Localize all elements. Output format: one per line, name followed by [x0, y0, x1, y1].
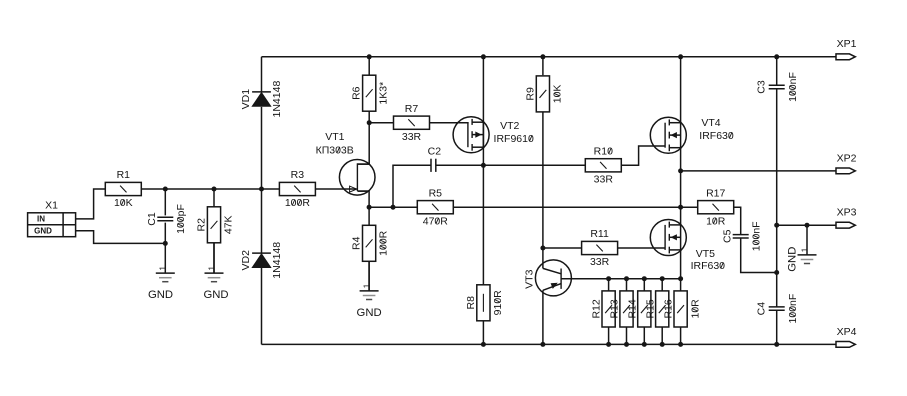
junction C2 riser node	[391, 205, 396, 210]
junction VT1 source node	[367, 205, 372, 210]
svg-text:VT2: VT2	[500, 120, 519, 132]
resistor R14 10R bank	[626, 279, 651, 345]
resistor R16 10R bank	[663, 291, 688, 327]
svg-text:C1: C1	[146, 212, 158, 226]
capacitor C3	[756, 72, 800, 102]
transistor VT2 IRF9610	[453, 117, 534, 153]
wire left vertical VD1 to node IN	[261, 107, 263, 253]
svg-text:IN: IN	[37, 215, 45, 224]
svg-text:VT4: VT4	[701, 117, 720, 129]
resistor R10	[585, 146, 621, 186]
junction sense rail R13	[624, 276, 629, 281]
junction bottom rail R13	[624, 342, 629, 347]
svg-text:33R: 33R	[590, 256, 610, 268]
junction VT4 source XP2	[678, 168, 683, 173]
capacitor C4	[756, 294, 800, 324]
junction input rail VD	[259, 187, 264, 192]
svg-text:GND: GND	[148, 289, 173, 301]
svg-text:VT1: VT1	[325, 131, 344, 143]
junction C2 VT2 source	[481, 163, 486, 168]
wire VT5 source to sense node	[680, 250, 682, 279]
label R16 value 10R	[690, 299, 702, 319]
svg-text:R17: R17	[706, 187, 725, 199]
wire VT5 drain	[680, 207, 682, 225]
svg-text:X1: X1	[45, 199, 58, 211]
connector X1	[28, 199, 76, 236]
wire R6 bottom to gate node	[368, 111, 370, 123]
junction C5 ground line	[774, 270, 779, 275]
wire C1 bottom branch	[164, 223, 166, 244]
svg-text:10K: 10K	[114, 197, 133, 209]
svg-text:C2: C2	[428, 145, 442, 157]
wire R1 to R3 input rail	[141, 188, 279, 190]
capacitor C5	[721, 221, 762, 251]
wire R4 bottom to ground	[368, 261, 370, 291]
svg-text:100R: 100R	[378, 230, 390, 256]
svg-text:КП303В: КП303В	[316, 144, 354, 156]
wire R17 to C5	[734, 207, 741, 234]
wire ground line C3 to XP3	[776, 89, 778, 226]
wire ground line top	[776, 57, 778, 86]
svg-text:1: 1	[207, 266, 216, 271]
junction top rail R9	[540, 54, 545, 59]
svg-text:100nF: 100nF	[787, 294, 799, 324]
wire R11 to VT5 gate	[618, 247, 666, 249]
wire VT2 node to R10	[483, 164, 585, 166]
svg-text:C4: C4	[756, 302, 768, 316]
svg-text:R3: R3	[291, 169, 305, 181]
wire VT2 channel to C2 node	[482, 122, 484, 165]
resistor R15 10R bank	[644, 279, 669, 345]
svg-text:470R: 470R	[423, 215, 449, 227]
svg-text:R15: R15	[644, 299, 656, 318]
svg-text:100nF: 100nF	[787, 72, 799, 102]
wire R2 top branch	[213, 189, 215, 207]
resistor R4	[351, 225, 390, 261]
wire C2 right to VT2 source node	[436, 164, 484, 166]
svg-text:R1: R1	[117, 169, 131, 181]
wire R3 to VT1 gate	[315, 188, 356, 190]
wire R7 left	[369, 122, 393, 124]
svg-text:R6: R6	[351, 86, 363, 100]
junction input rail C1	[163, 187, 168, 192]
resistor R8	[465, 285, 504, 321]
svg-text:910R: 910R	[492, 290, 504, 316]
junction sense rail R14	[642, 276, 647, 281]
wire ground line XP3 to C5 node	[776, 225, 778, 272]
svg-text:10K: 10K	[551, 85, 563, 104]
svg-text:R16: R16	[663, 299, 675, 318]
transistor VT1 KP303V JFET	[316, 131, 375, 195]
wire top supply rail	[262, 56, 837, 58]
wire XP2 node to VT5 drain node	[680, 171, 682, 207]
terminal XP1	[836, 38, 857, 60]
svg-text:1N4148: 1N4148	[271, 81, 283, 118]
wire C2 riser	[393, 165, 431, 207]
svg-text:GND: GND	[357, 307, 382, 319]
transistor VT5 IRF630	[650, 220, 725, 273]
svg-text:1K3*: 1K3*	[378, 82, 390, 105]
wire VT3 base to sense rail	[561, 278, 681, 280]
wire gate node to VT1 drain	[358, 123, 369, 164]
wire VT3 collector	[542, 248, 544, 268]
resistor R6	[351, 75, 390, 111]
wire R17 left	[681, 206, 698, 208]
junction R17 VT5 drain	[678, 205, 683, 210]
svg-text:R7: R7	[405, 103, 419, 115]
wire R9 bottom to R11 node	[542, 112, 544, 248]
junction bottom rail R14	[642, 342, 647, 347]
wire XP2 output rail	[681, 170, 836, 172]
junction top rail R6	[367, 54, 372, 59]
junction bottom rail ground line	[774, 342, 779, 347]
resistor R17	[698, 187, 734, 227]
junction input rail R2	[212, 187, 217, 192]
svg-text:IRF630: IRF630	[691, 260, 726, 272]
junction sense rail R16	[678, 276, 683, 281]
wire R11 left	[543, 247, 582, 249]
wire R4 top	[368, 207, 370, 225]
terminal XP3	[836, 207, 857, 228]
capacitor C1	[146, 204, 187, 234]
svg-text:R13: R13	[609, 299, 621, 318]
resistor R3	[279, 169, 315, 209]
svg-text:IRF9610: IRF9610	[494, 133, 534, 145]
junction XP3 gnd symbol	[805, 223, 810, 228]
wire C1 top branch	[164, 189, 166, 215]
svg-text:C3: C3	[756, 80, 768, 94]
svg-text:33R: 33R	[402, 131, 422, 143]
svg-text:R4: R4	[351, 236, 363, 250]
svg-text:1: 1	[159, 266, 168, 271]
svg-text:R9: R9	[524, 87, 536, 101]
transistor VT3	[523, 260, 571, 296]
svg-text:R12: R12	[591, 299, 603, 318]
resistor R11	[582, 228, 618, 268]
svg-text:1N4148: 1N4148	[271, 242, 283, 279]
capacitor C2	[428, 145, 442, 172]
ground below C1	[148, 243, 175, 301]
ground near XP3	[786, 225, 816, 272]
terminal XP2	[836, 152, 857, 173]
wire left vertical VD2 to bottom rail	[261, 268, 263, 345]
diode VD1	[240, 81, 283, 118]
svg-text:R10: R10	[594, 146, 613, 158]
wire R8 top	[482, 165, 484, 285]
svg-text:R8: R8	[465, 296, 477, 310]
junction top rail ground line	[774, 54, 779, 59]
junction R11 node	[540, 246, 545, 251]
ground below R2	[203, 243, 228, 301]
wire R10 to VT4 gate	[621, 146, 665, 165]
wire R8 bottom to rail	[482, 320, 484, 344]
resistor R5	[417, 187, 453, 227]
resistor R9	[524, 76, 563, 112]
svg-text:1: 1	[800, 247, 809, 252]
wire VT4 source to XP2 node	[680, 148, 682, 171]
svg-text:10R: 10R	[690, 299, 702, 319]
transistor VT4 IRF630	[650, 117, 734, 153]
svg-text:47K: 47K	[223, 215, 235, 234]
terminal XP4	[836, 326, 857, 348]
wire X1 IN pin to R1	[76, 189, 106, 219]
junction bottom rail R8	[481, 342, 486, 347]
svg-text:VD2: VD2	[240, 250, 252, 271]
junction R6 R7 gate node	[367, 120, 372, 125]
ground below R4	[357, 261, 382, 319]
junction top rail VT4	[678, 54, 683, 59]
wire R16 body	[680, 279, 682, 291]
resistor R7	[394, 103, 430, 143]
svg-text:XP1: XP1	[837, 38, 857, 50]
wire R5 node to R17 node	[453, 206, 681, 208]
svg-text:VD1: VD1	[240, 89, 252, 110]
wire R16 bottom	[680, 327, 682, 344]
junction sense rail R12	[606, 276, 611, 281]
resistor R2	[196, 207, 235, 243]
wire XP3 rail	[777, 224, 836, 226]
svg-text:GND: GND	[34, 227, 52, 236]
svg-text:R11: R11	[590, 228, 609, 240]
wire ground line C4 to bottom rail	[776, 310, 778, 344]
svg-text:C5: C5	[721, 229, 733, 243]
junction ground line XP3	[774, 223, 779, 228]
svg-text:VT3: VT3	[523, 269, 535, 288]
wire VT1 source node to R5	[369, 206, 418, 208]
resistor R13 10R bank	[609, 279, 634, 345]
svg-text:XP2: XP2	[837, 152, 857, 164]
svg-text:XP4: XP4	[837, 326, 857, 338]
svg-text:GND: GND	[203, 289, 228, 301]
wire R9 top	[542, 57, 544, 75]
svg-text:R14: R14	[626, 299, 638, 318]
wire R2 bottom to ground	[213, 243, 215, 273]
svg-text:33R: 33R	[594, 174, 614, 186]
wire R6 top	[368, 57, 370, 75]
junction bottom rail R15	[660, 342, 665, 347]
svg-text:GND: GND	[786, 247, 798, 272]
wire VT4 drain from top rail	[680, 57, 682, 123]
svg-text:1: 1	[363, 283, 372, 288]
svg-text:VT5: VT5	[696, 248, 715, 260]
svg-text:10R: 10R	[706, 215, 726, 227]
wire C5 bottom to ground line	[741, 238, 777, 273]
junction sense rail R15	[660, 276, 665, 281]
wire VT1 source tap down	[358, 191, 369, 207]
junction X1 gnd C1	[163, 241, 168, 246]
junction bottom rail R16	[678, 342, 683, 347]
diode VD2	[240, 242, 283, 279]
svg-text:R5: R5	[429, 187, 443, 199]
svg-text:XP3: XP3	[837, 207, 857, 219]
svg-text:100R: 100R	[285, 197, 311, 209]
wire VT2 drain from top rail	[482, 57, 484, 122]
resistor R1	[105, 169, 141, 209]
svg-text:100pF: 100pF	[175, 204, 187, 234]
wire left vertical VD1 segment upper	[261, 57, 263, 92]
wire VT3 emitter to bottom rail	[542, 290, 544, 344]
svg-text:100nF: 100nF	[751, 221, 763, 251]
junction bottom rail VT3	[540, 342, 545, 347]
junction top rail VT2	[481, 54, 486, 59]
svg-text:IRF630: IRF630	[699, 130, 734, 142]
wire ground line C5 node to C4	[776, 273, 778, 307]
wire bottom negative rail	[262, 343, 837, 345]
resistor R12 10R bank	[591, 279, 616, 345]
wire R7 to VT2 gate	[430, 122, 469, 124]
wire X1 GND pin to C1 bottom node	[76, 231, 166, 244]
junction bottom rail R12	[606, 342, 611, 347]
svg-text:R2: R2	[196, 218, 208, 232]
